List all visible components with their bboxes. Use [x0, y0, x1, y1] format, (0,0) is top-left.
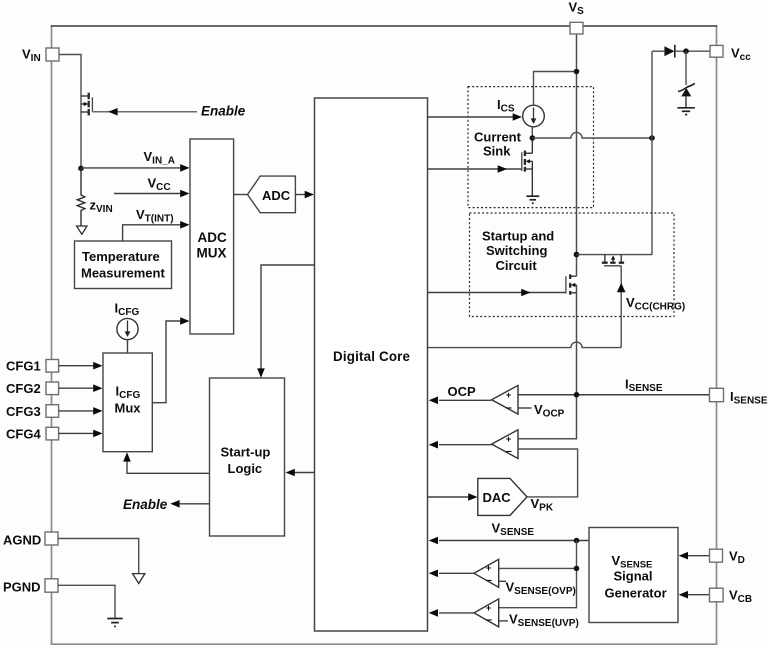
wire Enable out of Start-up Logic: [170, 500, 209, 508]
wire ADC MUX to ADC: [234, 194, 248, 196]
svg-text:ADC: ADC: [198, 230, 227, 245]
svg-text:VIN: VIN: [22, 47, 41, 65]
signal ground (AGND): [133, 574, 145, 584]
transistor Q4 (switching MOSFET, lateral): [602, 255, 624, 266]
wire Digital Core to DAC: [428, 493, 478, 501]
svg-text:Digital Core: Digital Core: [333, 349, 410, 364]
dot ISENSE node: [574, 392, 580, 398]
svg-text:CFG2: CFG2: [6, 381, 41, 396]
svg-text:+: +: [506, 390, 512, 401]
pin CFG2: [6, 381, 59, 396]
svg-text:VCC(CHRG): VCC(CHRG): [626, 295, 685, 313]
svg-text:VIN_A: VIN_A: [144, 149, 175, 167]
comparator peak current (U2): [492, 430, 518, 459]
ADC converter shape: [248, 176, 296, 213]
dotted box Startup and Switching Circuit: [470, 213, 675, 317]
wire VSENSE branch to OVP and UVP: [499, 541, 577, 608]
svg-text:Temperature: Temperature: [82, 249, 160, 264]
svg-text:CFG1: CFG1: [6, 359, 41, 374]
dot VCC rail junction: [649, 135, 655, 141]
svg-text:CFG3: CFG3: [6, 404, 41, 419]
transistor Q2 (current sink MOSFET): [522, 138, 533, 196]
wire U2 plus input from ISENSE node: [518, 438, 577, 440]
svg-text:VCC: VCC: [148, 176, 171, 194]
dot VSENSE node: [574, 538, 580, 544]
ground (current sink): [526, 196, 539, 203]
svg-text:VCB: VCB: [729, 588, 752, 606]
wire VCB to generator: [679, 591, 709, 599]
wire CFG2 to mux: [59, 384, 103, 392]
svg-text:VSENSE: VSENSE: [492, 521, 535, 539]
VS bus vertical wire: [518, 34, 577, 439]
zener diode D2: [678, 51, 695, 107]
pin AGND: [3, 532, 58, 547]
wire VS node to VCC rail (Q4 top): [577, 254, 653, 256]
wire ICS bottom to Q2: [531, 127, 533, 139]
svg-text:VSENSE(OVP): VSENSE(OVP): [506, 580, 576, 598]
open arrow down (VIN divider to gnd): [77, 226, 87, 234]
wire CFG4 to mux: [59, 430, 103, 438]
svg-text:MUX: MUX: [197, 246, 227, 261]
border top / VS bus: [51, 25, 718, 27]
box Start-up Logic: [210, 378, 285, 536]
wire ADC to Digital Core: [295, 191, 314, 199]
ground (zener): [677, 108, 694, 115]
svg-text:Switching: Switching: [486, 243, 547, 258]
wire VIN_A to ADC MUX: [81, 164, 190, 172]
wire VSENSE generator to Digital Core: [429, 537, 589, 545]
svg-text:VSENSE(UVP): VSENSE(UVP): [509, 612, 579, 630]
wire U2 output to Digital Core: [429, 441, 492, 449]
svg-text:Mux: Mux: [115, 400, 142, 415]
svg-text:AGND: AGND: [3, 532, 41, 547]
svg-text:–: –: [506, 402, 512, 414]
box ICFG Mux: [103, 353, 152, 452]
pin ISENSE: [710, 388, 768, 406]
svg-text:PGND: PGND: [3, 579, 41, 594]
wire OCP minus stub: [518, 407, 532, 409]
svg-text:Generator: Generator: [605, 586, 667, 601]
pin VS: [569, 0, 585, 34]
svg-text:Vcc: Vcc: [731, 45, 751, 63]
wire Enable to Q1 gate: [92, 108, 197, 116]
wire Digital Core to Q3 gate: [428, 289, 567, 297]
wire ICS top to VS: [534, 72, 577, 106]
node VIN_A dot: [78, 166, 84, 172]
border left: [51, 26, 53, 644]
wire Digital Core to ICS: [428, 113, 523, 121]
svg-text:Logic: Logic: [228, 461, 263, 476]
svg-text:Signal: Signal: [614, 569, 653, 584]
wire OVP output to Digital Core: [429, 570, 474, 578]
dot VS switching node: [574, 252, 580, 258]
svg-text:VOCP: VOCP: [534, 402, 565, 420]
wire OVP minus stub: [499, 580, 506, 582]
border bottom: [51, 643, 718, 645]
wire VT(INT) from Temperature Measurement to ADC MUX: [123, 221, 190, 241]
comparator UVP (U4): [474, 599, 499, 627]
dot current sink branch: [530, 135, 536, 141]
svg-text:Circuit: Circuit: [496, 258, 538, 273]
diode D1 to VCC: [652, 45, 710, 58]
box ADC MUX: [190, 139, 234, 334]
pin CFG3: [6, 404, 59, 419]
svg-text:ISENSE: ISENSE: [625, 377, 663, 395]
wire VIN pin to pass MOSFET and node: [59, 55, 81, 169]
svg-text:–: –: [486, 614, 492, 626]
box VSENSE Signal Generator: [589, 528, 678, 623]
box Digital Core: [315, 98, 428, 631]
wire Start-up Logic to ICFG Mux enable: [123, 452, 209, 473]
wire VCC(CHRG) gate line with hop to Digital Core: [428, 266, 626, 348]
wire Digital Core to Q2 gate: [428, 165, 522, 173]
wire U2 minus input from DAC VPK: [518, 449, 578, 497]
pin CFG1: [6, 359, 59, 374]
pin CFG4: [6, 427, 59, 442]
shape DAC: [478, 478, 527, 515]
wire UVP output to Digital Core: [429, 609, 474, 617]
svg-text:VPK: VPK: [531, 496, 554, 514]
pin VD: [710, 549, 745, 567]
svg-text:DAC: DAC: [483, 490, 512, 505]
svg-text:+: +: [486, 563, 492, 574]
current source ICS: [523, 105, 545, 127]
comparator OCP (U1): [492, 385, 518, 414]
earth ground (PGND): [107, 619, 122, 627]
dot OVP branch: [574, 566, 580, 572]
box Temperature Measurement: [75, 241, 172, 289]
svg-text:–: –: [506, 446, 512, 458]
wire Digital Core to Start-up Logic top: [257, 265, 314, 378]
svg-text:Measurement: Measurement: [81, 265, 165, 280]
wire current sink row with hop to VCC rail: [532, 132, 652, 138]
svg-text:+: +: [486, 603, 492, 614]
svg-text:+: +: [506, 434, 512, 445]
wire PGND to earth ground: [58, 585, 115, 618]
wire CFG1 to mux: [59, 362, 103, 370]
pin PGND: [3, 579, 58, 595]
dot VCC junction: [683, 48, 689, 54]
svg-text:VD: VD: [729, 549, 745, 567]
svg-text:Enable: Enable: [123, 497, 168, 512]
svg-text:Current: Current: [474, 129, 522, 144]
svg-text:–: –: [486, 574, 492, 586]
wire ICFG Mux to ADC MUX: [152, 317, 189, 403]
transistor Q3 (startup MOSFET on VS line): [566, 274, 577, 294]
wire VCC to ADC MUX: [114, 190, 190, 198]
svg-text:OCP: OCP: [448, 384, 477, 399]
resistor zVIN: [77, 168, 85, 226]
wire VCC rail vertical (diode to Q4): [651, 51, 653, 255]
svg-text:ISENSE: ISENSE: [730, 389, 768, 407]
dotted box Current Sink: [468, 87, 594, 208]
dot VS / current sink top: [574, 69, 580, 75]
svg-text:zVIN: zVIN: [90, 198, 113, 216]
svg-text:VS: VS: [569, 0, 585, 17]
wire VD to generator: [679, 552, 709, 560]
wire Digital Core to Start-up Logic right: [286, 469, 315, 477]
pin VCC: [710, 45, 751, 63]
svg-text:Startup and: Startup and: [482, 229, 554, 244]
wire ISENSE from VS node to pin: [518, 394, 709, 396]
wire UVP minus stub: [499, 620, 508, 622]
svg-text:Enable: Enable: [201, 104, 246, 119]
pin VIN: [22, 47, 59, 65]
pin VCB: [710, 588, 753, 606]
border right: [716, 26, 718, 644]
svg-text:ICFG: ICFG: [115, 301, 140, 319]
svg-text:CFG4: CFG4: [6, 427, 41, 442]
svg-text:VT(INT): VT(INT): [136, 207, 174, 225]
svg-text:ADC: ADC: [262, 188, 291, 203]
wire AGND to signal ground: [58, 539, 139, 574]
svg-text:Start-up: Start-up: [221, 444, 271, 459]
wire OCP output to Digital Core: [429, 397, 492, 405]
comparator OVP (U3): [474, 559, 499, 587]
transistor Q1 (VIN pass MOSFET): [81, 93, 92, 116]
svg-text:ICS: ICS: [497, 97, 515, 115]
svg-text:Sink: Sink: [483, 143, 511, 158]
current source ICFG: [117, 318, 138, 353]
wire CFG3 to mux: [59, 407, 103, 415]
